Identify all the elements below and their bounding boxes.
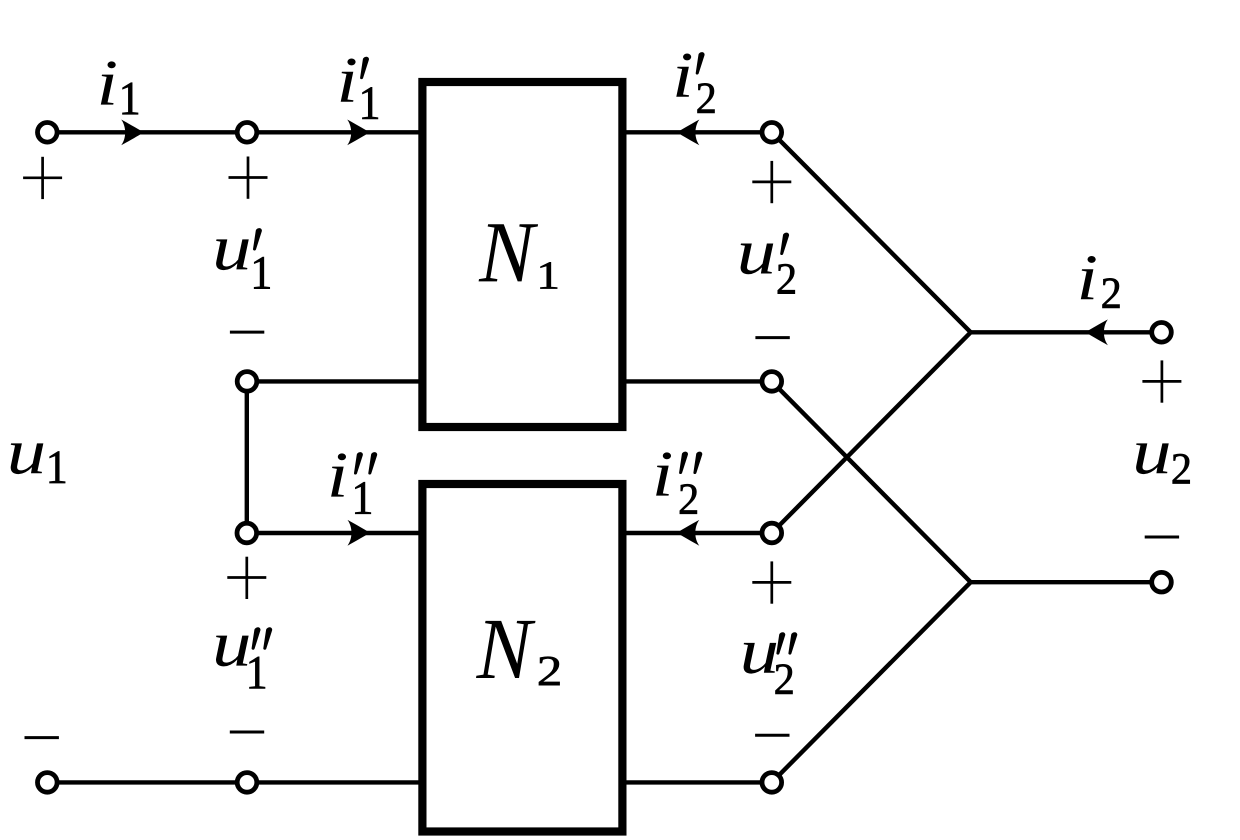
label i1 [101,61,138,114]
minus sign u2 [1145,536,1179,539]
terminal u2 minus [1152,572,1172,592]
wire diagonal B to M2 [772,381,971,582]
label N2 [476,621,560,685]
node u''1 top [237,523,257,543]
label i''1 [331,452,377,514]
node C [762,523,782,543]
minus sign u''2 [755,734,789,737]
arrow i2 [1086,319,1108,345]
arrow i''2 [677,520,699,546]
wire C rail left [247,531,423,535]
label i2 [1081,256,1120,308]
wire diagonal D to M2 [772,582,971,782]
arrow i'1 [347,119,369,145]
terminal i2 [1152,323,1172,343]
label i''2 [656,452,702,514]
label u'1 [216,228,270,289]
wire D right [622,780,772,784]
minus sign u'2 [755,336,789,339]
node D [762,773,782,793]
plus sign u'2 [752,161,791,203]
node B [762,372,782,392]
wire M1 to i2 terminal [971,330,1162,334]
wire top-left rail [47,130,423,134]
arrow i''1 [348,520,370,546]
plus sign u''1 [227,557,266,599]
arrow i'2 [677,119,699,145]
label u''2 [744,632,798,694]
minus sign u''1 [230,731,264,734]
wire bottom rail left [47,780,423,784]
wire A right [622,130,772,134]
label u''1 [216,627,272,688]
plus sign u1 top [23,157,62,199]
wire M2 to u2 terminal [971,580,1162,584]
label u'2 [741,233,795,294]
wire B right [622,379,772,383]
wire vertical link [245,381,249,533]
wire B rail left [247,379,423,383]
node A [762,123,782,143]
two-port N2 box [422,484,622,832]
terminal T2 [38,773,58,793]
wire diagonal C to M1 [772,332,971,533]
label i'2 [676,52,714,113]
wire C right [622,531,772,535]
node u'1 bottom [237,372,257,392]
minus sign u1 [25,736,59,739]
two-port N1 box [422,82,622,427]
terminal T1 [38,123,58,143]
arrow i1 [121,119,143,145]
minus sign u'1 [230,331,264,334]
wire diagonal A to M1 [772,132,971,332]
label N1 [479,224,557,288]
node u''1 bottom [237,773,257,793]
label u1 [11,443,65,483]
node u'1 top [237,123,257,143]
plus sign u'1 [229,157,268,199]
plus sign u2 top [1142,360,1181,402]
plus sign u''2 [752,561,791,603]
label u2 [1136,443,1190,483]
label i'1 [341,57,378,119]
